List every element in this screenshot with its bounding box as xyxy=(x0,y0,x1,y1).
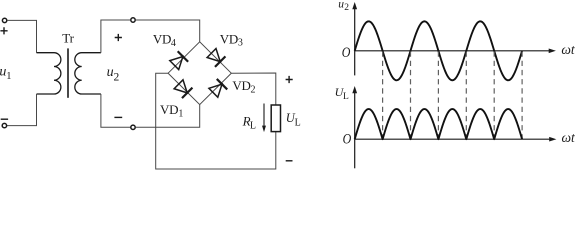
plus primary xyxy=(0,27,7,34)
terminal secondary + xyxy=(131,18,135,22)
svg-text:2: 2 xyxy=(114,71,120,83)
diode VD3 xyxy=(207,49,225,67)
transformer core xyxy=(67,48,69,97)
wire secondary - to bridge bottom xyxy=(136,105,200,128)
svg-text:3: 3 xyxy=(238,38,243,49)
plus secondary xyxy=(115,34,122,41)
u2 sine wave xyxy=(355,21,522,80)
wire secondary bottom xyxy=(101,94,130,127)
diode VD1 xyxy=(174,80,192,98)
dashed guide lines xyxy=(383,52,522,140)
svg-text:4: 4 xyxy=(171,38,176,49)
svg-text:1: 1 xyxy=(6,71,11,82)
wire bridge left corner to bottom rail xyxy=(156,73,276,169)
svg-text:VD: VD xyxy=(232,78,250,93)
svg-text:L: L xyxy=(343,92,349,102)
u2 plot y-axis xyxy=(354,8,356,75)
svg-text:O: O xyxy=(342,44,351,60)
resistor RL box xyxy=(271,105,280,132)
svg-text:O: O xyxy=(343,131,352,147)
terminal secondary - xyxy=(131,125,135,129)
svg-text:ωt: ωt xyxy=(562,130,575,145)
transformer primary winding xyxy=(37,53,61,94)
diode VD4 xyxy=(170,51,188,69)
UL plot x-axis xyxy=(355,138,550,140)
svg-text:VD: VD xyxy=(160,102,178,117)
svg-text:2: 2 xyxy=(344,3,349,13)
plus load xyxy=(286,76,293,83)
wire bridge right corner to load xyxy=(231,73,275,105)
svg-text:ωt: ωt xyxy=(561,42,575,57)
transformer secondary winding xyxy=(75,53,101,94)
svg-text:VD: VD xyxy=(220,31,238,46)
wire primary top xyxy=(7,20,36,52)
minus primary xyxy=(1,118,8,120)
svg-text:L: L xyxy=(250,120,256,131)
svg-text:Tr: Tr xyxy=(62,31,74,46)
diode VD2 xyxy=(209,79,227,97)
wire primary bottom xyxy=(7,94,37,126)
svg-text:2: 2 xyxy=(251,85,256,96)
svg-text:1: 1 xyxy=(178,109,183,120)
wire secondary top xyxy=(101,20,130,53)
svg-text:VD: VD xyxy=(153,31,171,46)
u2 plot x-axis xyxy=(355,50,549,52)
terminal top-left (primary +) xyxy=(2,18,6,22)
bridge diamond wires xyxy=(168,42,231,105)
terminal bottom-left (primary -) xyxy=(2,123,6,127)
minus secondary xyxy=(114,116,122,118)
arrow UL direction xyxy=(263,104,265,127)
UL rectified wave xyxy=(355,109,522,139)
wire secondary top to bridge xyxy=(136,20,200,42)
UL plot y-axis xyxy=(354,92,356,168)
minus load xyxy=(286,160,293,162)
svg-text:L: L xyxy=(295,118,301,129)
